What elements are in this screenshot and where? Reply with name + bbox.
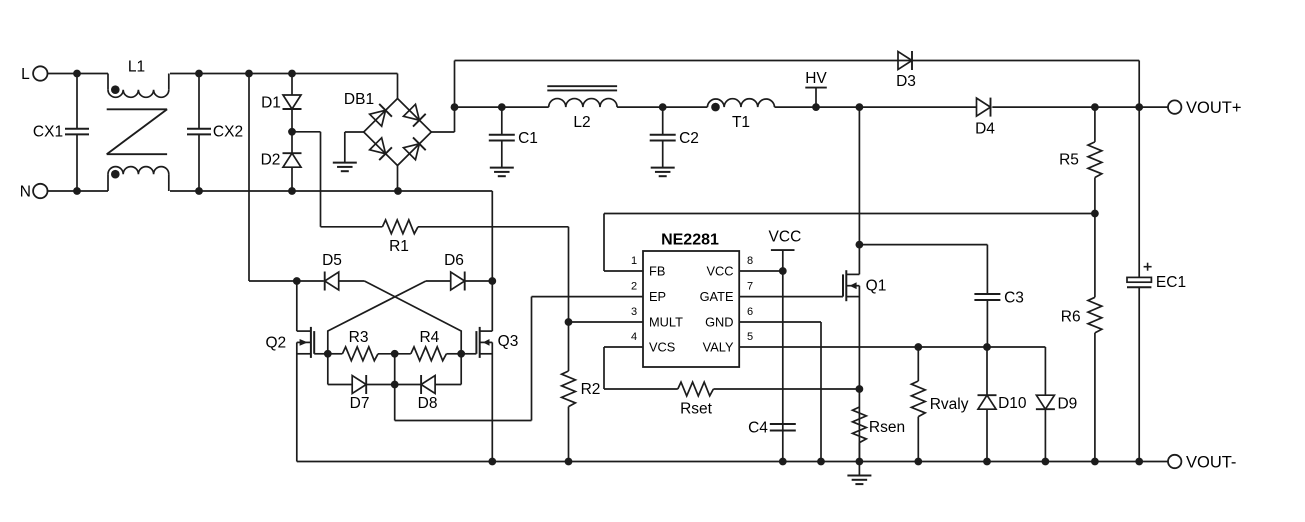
node Rvaly-valy xyxy=(914,343,922,351)
resistor R5 xyxy=(1059,107,1102,213)
wire xyxy=(297,280,324,282)
svg-text:Rsen: Rsen xyxy=(869,419,905,436)
wire xyxy=(604,213,1095,215)
svg-text:R5: R5 xyxy=(1059,152,1079,169)
node N-CX2 xyxy=(195,187,203,195)
node xyxy=(565,458,573,466)
wire xyxy=(339,280,365,282)
node VCC-pin8 xyxy=(779,267,787,275)
svg-text:NE2281: NE2281 xyxy=(661,232,719,249)
svg-text:3: 3 xyxy=(631,306,637,318)
svg-text:5: 5 xyxy=(747,331,753,343)
node L-switch xyxy=(245,70,253,78)
node Q3-drain xyxy=(488,277,496,285)
capacitor C4 xyxy=(748,420,796,437)
svg-text:GND: GND xyxy=(705,315,733,330)
node N-D2 xyxy=(288,187,296,195)
resistor Rset xyxy=(604,382,859,417)
svg-text:EP: EP xyxy=(649,289,666,304)
terminal VCC xyxy=(769,229,802,462)
wire xyxy=(435,354,461,385)
resistor R1 xyxy=(321,220,569,255)
svg-text:D7: D7 xyxy=(350,395,370,412)
node xyxy=(983,458,991,466)
svg-text:R2: R2 xyxy=(581,381,601,398)
node xyxy=(779,458,787,466)
svg-text:8: 8 xyxy=(747,255,753,267)
node Q2-drain xyxy=(293,277,301,285)
diode D9 xyxy=(1036,347,1077,462)
node L-CX1 xyxy=(73,70,81,78)
node xyxy=(856,458,864,466)
svg-text:DB1: DB1 xyxy=(344,91,374,108)
svg-text:D3: D3 xyxy=(896,73,916,90)
wire xyxy=(491,191,493,281)
pin 1 FB xyxy=(604,214,665,279)
svg-text:Q3: Q3 xyxy=(498,333,519,350)
node N-CX1 xyxy=(73,187,81,195)
pin 4 VCS xyxy=(604,331,675,389)
wire xyxy=(569,321,644,323)
wire xyxy=(395,297,643,421)
node R5-rail xyxy=(1091,103,1099,111)
svg-text:HV: HV xyxy=(805,70,827,87)
wire xyxy=(394,354,396,421)
svg-text:Rset: Rset xyxy=(680,401,713,418)
svg-text:C3: C3 xyxy=(1004,290,1024,307)
svg-text:EC1: EC1 xyxy=(1156,274,1186,291)
inductor L1 xyxy=(107,58,169,191)
diode D1 xyxy=(261,74,301,132)
wire xyxy=(170,73,398,75)
wire xyxy=(617,106,707,108)
transistor Q2 xyxy=(265,281,327,462)
terminal HV xyxy=(805,70,827,111)
pin 3 MULT xyxy=(631,306,683,330)
resistor R6 xyxy=(1061,214,1102,462)
resistor Rsen xyxy=(853,407,906,462)
svg-text:D1: D1 xyxy=(261,95,281,112)
svg-text:Q2: Q2 xyxy=(265,334,286,351)
transistor Q3 xyxy=(461,281,518,462)
ground xyxy=(847,462,871,485)
node EC1-rail xyxy=(1135,103,1143,111)
svg-text:VALY: VALY xyxy=(703,340,734,355)
pin 2 EP xyxy=(631,281,666,305)
svg-text:T1: T1 xyxy=(732,114,750,131)
inductor L2 xyxy=(547,86,617,131)
node Q2-gate xyxy=(324,350,332,358)
diode D8 xyxy=(395,375,438,412)
svg-text:7: 7 xyxy=(747,281,753,293)
terminal N xyxy=(20,184,48,201)
resistor R3 xyxy=(328,329,395,361)
ground xyxy=(651,168,675,177)
node MULT xyxy=(565,318,573,326)
svg-text:FB: FB xyxy=(649,264,665,279)
wire xyxy=(366,384,395,386)
wire xyxy=(431,61,1139,133)
svg-text:VCC: VCC xyxy=(769,229,802,246)
svg-text:R6: R6 xyxy=(1061,309,1081,326)
resistor R4 xyxy=(395,329,462,361)
svg-text:D5: D5 xyxy=(322,252,342,269)
svg-text:R3: R3 xyxy=(349,329,369,346)
svg-text:MULT: MULT xyxy=(649,315,683,330)
svg-text:VCC: VCC xyxy=(706,264,733,279)
pin 8 VCC xyxy=(706,255,782,279)
svg-text:L2: L2 xyxy=(573,114,590,131)
wire xyxy=(170,190,492,192)
diode D7 xyxy=(350,375,370,412)
svg-text:VCS: VCS xyxy=(649,340,675,355)
svg-text:R1: R1 xyxy=(389,238,409,255)
capacitor C2 xyxy=(650,103,699,167)
node xyxy=(488,458,496,466)
wire xyxy=(775,106,977,108)
pin 7 GATE xyxy=(700,281,843,305)
node xyxy=(914,458,922,466)
pin 6 GND xyxy=(705,306,821,462)
resistor Rvaly xyxy=(911,347,968,462)
svg-text:VOUT-: VOUT- xyxy=(1186,453,1236,471)
svg-text:6: 6 xyxy=(747,306,753,318)
svg-text:C1: C1 xyxy=(518,130,538,147)
wire xyxy=(465,280,493,282)
node D1-D2 xyxy=(288,128,296,136)
wire xyxy=(292,132,321,227)
svg-text:D8: D8 xyxy=(418,395,438,412)
ground xyxy=(490,168,514,177)
wire xyxy=(397,74,399,99)
terminal VOUT- xyxy=(1168,453,1236,471)
wire xyxy=(48,73,109,75)
diode D3 xyxy=(896,51,916,90)
svg-text:GATE: GATE xyxy=(700,289,734,304)
svg-text:1: 1 xyxy=(631,255,637,267)
op-amp U1 NE2281 xyxy=(643,232,739,367)
capacitor CX2 xyxy=(187,74,243,192)
node R5-R6 xyxy=(1091,210,1099,218)
svg-text:N: N xyxy=(20,184,31,201)
wire xyxy=(992,106,1168,108)
wire xyxy=(328,354,352,385)
wire xyxy=(568,227,570,371)
svg-text:D2: D2 xyxy=(261,152,281,169)
svg-text:C2: C2 xyxy=(679,130,699,147)
terminal VOUT+ xyxy=(1168,99,1241,117)
svg-text:Q1: Q1 xyxy=(866,278,887,295)
node N-bridge xyxy=(394,187,402,195)
svg-text:L: L xyxy=(21,66,30,83)
wire xyxy=(1138,61,1140,108)
capacitor C1 xyxy=(489,103,538,167)
bridge DB1 xyxy=(344,91,431,166)
wire xyxy=(397,166,399,192)
node xyxy=(1135,458,1143,466)
svg-text:CX2: CX2 xyxy=(213,124,243,141)
svg-text:Rvaly: Rvaly xyxy=(930,396,969,413)
wire xyxy=(48,190,109,192)
node xyxy=(1042,458,1050,466)
svg-text:C4: C4 xyxy=(748,420,768,437)
terminal L xyxy=(21,66,47,83)
wire xyxy=(345,132,364,163)
node Q1-drain xyxy=(856,241,864,249)
wire xyxy=(328,281,426,354)
transistor Q1 xyxy=(843,107,886,461)
diode D4 xyxy=(975,98,995,138)
node D7-D8 xyxy=(391,381,399,389)
svg-text:4: 4 xyxy=(631,331,637,343)
inductor T1 xyxy=(707,99,774,131)
node R3-R4 xyxy=(391,350,399,358)
pin 5 VALY xyxy=(703,331,1046,355)
diode D10 xyxy=(978,347,1027,462)
node xyxy=(1091,458,1099,466)
svg-text:L1: L1 xyxy=(128,58,145,75)
svg-text:D10: D10 xyxy=(998,395,1027,412)
node Q1-drain-rail xyxy=(856,103,864,111)
node L-CX2 xyxy=(195,70,203,78)
node Q1-source xyxy=(856,385,864,393)
wire xyxy=(455,106,549,108)
capacitor CX1 xyxy=(33,74,89,192)
capacitor EC1 xyxy=(1127,107,1186,461)
node C3-valy xyxy=(983,343,991,351)
node Q3-gate xyxy=(457,350,465,358)
svg-text:D9: D9 xyxy=(1057,396,1077,413)
ground xyxy=(333,163,357,172)
diode D6 xyxy=(426,252,465,291)
svg-text:D6: D6 xyxy=(444,252,464,269)
node xyxy=(817,458,825,466)
node L-D1 xyxy=(288,70,296,78)
wire xyxy=(297,461,1168,463)
wire xyxy=(364,281,461,354)
diode D5 xyxy=(322,252,342,291)
wire xyxy=(249,74,297,282)
node out xyxy=(451,103,459,111)
svg-text:R4: R4 xyxy=(419,329,439,346)
svg-text:2: 2 xyxy=(631,281,637,293)
diode D2 xyxy=(261,132,302,191)
svg-text:CX1: CX1 xyxy=(33,124,63,141)
resistor R2 xyxy=(562,371,601,462)
capacitor C3 xyxy=(859,245,1024,347)
svg-text:D4: D4 xyxy=(975,121,995,138)
svg-text:VOUT+: VOUT+ xyxy=(1186,99,1241,117)
